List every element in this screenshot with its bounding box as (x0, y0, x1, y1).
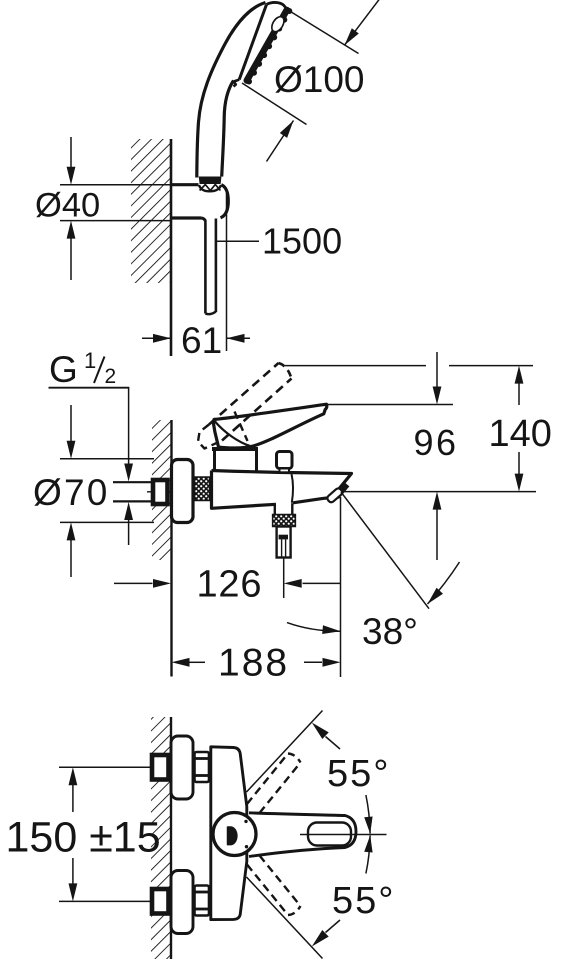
svg-text:96: 96 (414, 422, 459, 463)
mixer body (top view) (211, 747, 247, 920)
upper in-wall nut (152, 755, 169, 780)
reference line raised-lever top (140) (285, 365, 426, 367)
in-wall hex nut (middle) (153, 480, 168, 504)
lower union nut (195, 886, 210, 916)
dimension 188 (189, 661, 205, 663)
centerline (bottom view) (300, 834, 387, 836)
wall hatch (bottom) (151, 717, 171, 959)
pivot dome circle (213, 813, 256, 856)
G1/2 threaded shank pipe (113, 481, 152, 483)
wall surface line (middle) (170, 420, 172, 677)
wall hatch (top section) (131, 139, 171, 283)
upper union nut (195, 752, 210, 782)
lever front facet line (215, 422, 251, 447)
svg-text:G: G (49, 349, 78, 390)
angle arc arrows at centerline (366, 795, 370, 834)
body/spout joint curve (292, 474, 294, 503)
dimension O40 (60, 184, 171, 186)
mixer body barrel and spout (212, 471, 352, 496)
svg-text:55°: 55° (332, 880, 395, 922)
38 degree spray angle (341, 492, 429, 609)
wall hatch (middle) (152, 420, 172, 560)
upper escutcheon (top view) (171, 736, 193, 799)
dimension 126 (283, 558, 285, 599)
extension line at spout tip (340, 497, 342, 677)
svg-text:1500: 1500 (262, 221, 342, 262)
dimension 140 (518, 383, 520, 405)
55 degree upper angle dimension (247, 711, 323, 793)
knurled union between flange and body (195, 477, 210, 501)
svg-text:140: 140 (489, 413, 552, 455)
lower in-wall nut (152, 889, 169, 914)
leader 1500 (hose length) (216, 240, 259, 242)
svg-text:55°: 55° (327, 753, 390, 795)
dimension 61 (226, 190, 228, 351)
cartridge neck (212, 447, 258, 451)
svg-text:Ø40: Ø40 (35, 187, 100, 225)
shower hose (204, 221, 207, 314)
shower hose outlet under body (274, 505, 276, 515)
55 degree lower angle dimension (247, 877, 323, 959)
escutcheon flange (middle) (172, 460, 194, 523)
outlet level reference line (341, 491, 536, 493)
hand shower head and handle (197, 3, 266, 178)
lever inner top-face line (308, 823, 351, 846)
svg-text:126: 126 (197, 564, 263, 606)
dimension O100 (288, 10, 359, 54)
svg-text:2: 2 (105, 365, 117, 388)
wall bracket body (171, 183, 199, 186)
svg-text:188: 188 (218, 642, 289, 685)
wall surface line (bottom) (170, 717, 172, 959)
handle cone nut (black band) (199, 177, 222, 185)
aerator knurl band on spout tip (336, 484, 347, 497)
svg-text:61: 61 (181, 320, 222, 361)
lever handle raised (dashed) (209, 363, 279, 425)
diverter knob (277, 452, 293, 469)
svg-text:38°: 38° (362, 611, 418, 652)
lever handle (solid) (214, 404, 327, 448)
face center white cap (269, 15, 286, 34)
svg-text:Ø100: Ø100 (274, 59, 365, 100)
svg-text:Ø70: Ø70 (33, 472, 110, 513)
reference line lever top (96) (322, 404, 453, 406)
dimension 96 (436, 352, 438, 388)
junction dots (244, 820, 247, 823)
svg-text:150 ±15: 150 ±15 (6, 814, 161, 862)
wall surface line (top) (170, 139, 173, 356)
lever arm (top view, solid) (249, 813, 356, 857)
G1/2 leader (49, 387, 130, 389)
centerline (147, 491, 204, 493)
spray face nozzle band (247, 10, 287, 81)
dimension 150 +-15 (59, 766, 152, 768)
dimension O70 (60, 458, 154, 460)
svg-text:1: 1 (84, 348, 96, 373)
click zigzag band (200, 185, 221, 191)
D-notch (228, 827, 237, 845)
lower escutcheon (top view) (171, 871, 193, 934)
dashed lever down position (247, 865, 288, 916)
dashed lever up position (247, 754, 288, 805)
